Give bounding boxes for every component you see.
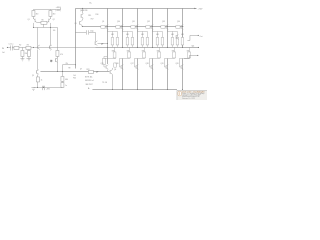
node arrow mark — [96, 71, 98, 73]
wire column C6 lower — [181, 58, 183, 89]
svg-text:Q1: Q1 — [27, 19, 29, 21]
resistor R22 emitter — [171, 37, 174, 45]
transistor Q5 — [36, 70, 38, 75]
wire column C5 upper — [166, 8, 168, 47]
wire Q14 emitter — [181, 29, 183, 47]
svg-text:DEVICES x4: DEVICES x4 — [85, 80, 94, 82]
transistor Q11 — [136, 25, 138, 30]
wire diff top — [33, 8, 60, 10]
svg-text:Q7: Q7 — [80, 69, 82, 71]
svg-text:0R5: 0R5 — [126, 34, 129, 36]
wire Q5 emitter — [36, 74, 38, 87]
resistor R6 emitter link — [41, 21, 47, 24]
svg-text:NOTE: ALL: NOTE: ALL — [85, 75, 93, 78]
ground input 1 — [20, 59, 24, 61]
transistor Q18 — [149, 58, 153, 69]
resistor R8 mirror — [26, 46, 31, 49]
svg-text:Q5: Q5 — [74, 23, 76, 25]
resistor R9 base — [101, 26, 105, 29]
wire input line — [7, 46, 95, 48]
wire column C1 lower — [106, 47, 108, 64]
svg-text:Q12: Q12 — [147, 21, 150, 23]
resistor R30 — [173, 52, 176, 58]
resistor R33 — [36, 77, 39, 82]
capacitor C4 bypass — [43, 86, 45, 90]
wire Q10 emitter ladder — [122, 29, 132, 47]
wire R29 stubs — [149, 47, 159, 58]
svg-text:Q4 BD139: Q4 BD139 — [80, 10, 88, 12]
wire base bus upper — [82, 25, 183, 27]
transistor Q20 — [179, 58, 183, 69]
transistor Q22 — [176, 35, 178, 40]
wire R7 bottom — [56, 56, 58, 71]
svg-text:R2: R2 — [19, 44, 21, 46]
resistor R26 — [102, 58, 105, 64]
resistor R18 base — [146, 26, 150, 29]
svg-text:Q13: Q13 — [162, 21, 165, 23]
resistor R28 — [143, 52, 146, 58]
transistor Q16 — [119, 58, 123, 69]
svg-text:R23: R23 — [86, 69, 89, 71]
ground input 2 — [26, 59, 31, 61]
junction dots — [33, 8, 183, 90]
node arrow mark 2 — [101, 43, 103, 45]
transistor Q12 — [151, 25, 153, 30]
svg-text:B-: B- — [88, 88, 90, 90]
wire out stub lower — [184, 55, 197, 58]
wire Q11 emitter ladder — [137, 29, 147, 47]
svg-text:Q6: Q6 — [50, 60, 52, 62]
svg-text:3k3: 3k3 — [36, 14, 39, 16]
wire column C6 upper — [181, 8, 183, 47]
wire column C2 lower — [121, 58, 123, 89]
svg-text:-35V: -35V — [46, 88, 50, 90]
resistor R19 emitter — [156, 37, 159, 45]
wire R31 stubs — [179, 47, 189, 58]
resistor R3 shunt — [27, 50, 30, 56]
capacitor C3 feedback — [61, 82, 64, 87]
resistor R11 emitter — [116, 37, 119, 45]
resistor R29 — [158, 52, 161, 58]
resistor R10 emitter — [111, 37, 114, 45]
wire column C5 lower — [166, 58, 168, 89]
svg-text:Q15: Q15 — [100, 63, 103, 65]
transistor Q3 mirror — [37, 45, 39, 50]
svg-text:0R5: 0R5 — [112, 50, 115, 52]
svg-text:Q20: Q20 — [175, 63, 178, 65]
wire tail — [33, 23, 57, 51]
wire R2 — [21, 47, 23, 58]
node +70V flag — [194, 8, 197, 9]
transistor Q19 — [164, 58, 168, 69]
svg-text:Q2: Q2 — [52, 19, 54, 21]
wire column C2 upper — [121, 8, 123, 47]
wire Q8 top stub — [111, 68, 113, 70]
svg-text:Q17: Q17 — [130, 63, 133, 65]
resistor R5 — [49, 10, 52, 16]
svg-text:Q11: Q11 — [132, 21, 135, 23]
capacitor C1 — [11, 45, 13, 50]
wire R30 stubs — [164, 47, 174, 58]
resistor R4 — [32, 10, 35, 16]
node speaker terminal — [198, 47, 199, 48]
node out terminal — [198, 35, 199, 36]
transistor Q7 bias — [80, 21, 82, 26]
wire column C3 lower — [136, 58, 138, 89]
svg-text:0R5: 0R5 — [157, 50, 160, 52]
transistor Q13 — [166, 25, 168, 30]
wire bottom rail — [92, 88, 177, 90]
svg-text:R10: R10 — [73, 78, 76, 80]
resistor R1 series — [14, 46, 19, 49]
resistor R32 on driver bus — [88, 70, 93, 73]
transistor Q21 — [95, 41, 97, 46]
svg-text:Q5: Q5 — [32, 75, 34, 77]
title block — [177, 90, 207, 100]
wire R26b stubs — [104, 47, 116, 58]
svg-text:0R5: 0R5 — [171, 34, 174, 36]
svg-text:1k: 1k — [41, 80, 43, 82]
labels — [2, 3, 203, 91]
resistor R2 shunt — [21, 50, 24, 56]
svg-text:+70V: +70V — [197, 9, 203, 11]
wire fb bottom — [61, 81, 63, 87]
resistor R20 emitter — [161, 37, 164, 45]
transistor Q14 — [181, 25, 183, 30]
node lower terminal — [197, 55, 198, 56]
wire column C3 upper — [136, 8, 138, 47]
svg-text:B+: B+ — [89, 3, 92, 5]
wire Q21 to column — [97, 42, 107, 44]
svg-text:Out: Out — [200, 35, 203, 38]
input stage — [7, 7, 96, 90]
resistor R13 emitter — [126, 37, 129, 45]
svg-text:SEE TEXT: SEE TEXT — [85, 84, 92, 86]
wire driver bus — [40, 70, 109, 72]
wire Q8 collector to rail — [111, 74, 113, 89]
svg-text:0R5: 0R5 — [156, 34, 159, 36]
svg-text:0R5: 0R5 — [111, 34, 114, 36]
resistor R7 tail — [56, 50, 59, 56]
svg-text:0R5: 0R5 — [142, 50, 145, 52]
svg-text:100: 100 — [53, 30, 56, 32]
wire out stub upper — [187, 35, 197, 40]
svg-text:Q14: Q14 — [177, 21, 180, 23]
right output stubs — [176, 35, 199, 59]
svg-text:Spk: Spk — [191, 46, 194, 48]
output devices row 1 (NPN on +rail) — [101, 25, 184, 48]
ground bottom left — [31, 87, 35, 90]
transistor Q17 — [134, 58, 138, 69]
transistor Q9 — [106, 25, 108, 30]
wire left feed vertical — [74, 8, 76, 68]
wire output bus — [95, 46, 198, 48]
wire Q9 emitter ladder — [107, 29, 117, 47]
VAS upper cluster — [75, 8, 107, 45]
title block emblem — [178, 91, 181, 96]
wire R26 stubs — [104, 56, 108, 66]
wire top rail — [75, 7, 196, 9]
capacitor C5 miller — [75, 30, 95, 34]
diode D3 — [114, 63, 117, 67]
svg-text:0R5: 0R5 — [141, 34, 144, 36]
svg-text:Q16: Q16 — [115, 63, 118, 65]
wire Q12 emitter ladder — [152, 29, 162, 47]
wire bias chain — [81, 8, 84, 26]
wire Q13 emitter ladder — [167, 29, 177, 47]
wire feedback L — [62, 65, 75, 77]
transistor Q2 — [47, 18, 51, 22]
svg-text:(+40V): (+40V) — [55, 10, 61, 12]
svg-text:22k: 22k — [65, 63, 68, 65]
transistor Q6 current source — [55, 58, 57, 63]
wire R28 stubs — [134, 47, 144, 58]
resistor R17 emitter — [146, 37, 149, 45]
wire R4 leads — [32, 9, 34, 18]
svg-text:1u0: 1u0 — [2, 52, 5, 54]
resistor R25 emitter — [181, 37, 184, 45]
transistor Q15 — [106, 65, 108, 70]
svg-text:680: 680 — [65, 79, 68, 81]
resistor R14 emitter — [131, 37, 134, 45]
svg-text:R15: R15 — [88, 15, 91, 17]
resistor R23 emitter — [176, 37, 179, 45]
resistor R26b — [113, 52, 116, 58]
resistor R27 — [128, 52, 131, 58]
svg-text:Q18: Q18 — [145, 63, 148, 65]
wire miller drop — [94, 32, 96, 41]
wire column C4 upper — [151, 8, 153, 47]
wire R27 stubs — [119, 47, 129, 58]
svg-text:470: 470 — [60, 54, 63, 56]
resistor R15 base — [131, 26, 135, 29]
output devices row 2 (PNP on -rail) — [102, 47, 190, 71]
wire R5 leads — [49, 9, 51, 18]
svg-text:Q19: Q19 — [160, 63, 163, 65]
wire R3 — [28, 47, 30, 58]
svg-text:R9: R9 — [68, 67, 70, 69]
resistor R24 base — [176, 26, 180, 29]
wire column C4 lower — [151, 58, 153, 89]
svg-text:0R5: 0R5 — [181, 34, 184, 36]
svg-text:0R5: 0R5 — [127, 50, 130, 52]
svg-text:R3: R3 — [27, 44, 29, 46]
wire emitter link — [37, 22, 47, 24]
svg-text:C1 1u: C1 1u — [8, 44, 13, 46]
svg-text:IN: IN — [2, 48, 5, 50]
svg-text:1u: 1u — [65, 85, 67, 87]
resistor R16 emitter — [141, 37, 144, 45]
resistor R12 base — [116, 26, 120, 29]
wire bottom left line — [33, 86, 62, 88]
svg-text:TO -VE: TO -VE — [102, 82, 107, 84]
svg-text:R6: R6 — [41, 20, 43, 22]
svg-text:100p: 100p — [90, 31, 94, 33]
svg-text:Q10: Q10 — [117, 21, 120, 23]
transistor Q8 driver — [110, 70, 112, 75]
svg-text:+35V: +35V — [55, 7, 61, 9]
transistor Q10 — [121, 25, 123, 30]
svg-text:Revision 1.0 - 1999: Revision 1.0 - 1999 — [182, 98, 195, 100]
node input terminal — [7, 47, 8, 48]
title block frame — [177, 90, 207, 100]
node +35V tick — [59, 7, 61, 9]
transistor Q6 bias — [81, 14, 83, 19]
svg-text:22k: 22k — [25, 53, 28, 55]
svg-text:3k3: 3k3 — [53, 14, 56, 16]
svg-text:R16: R16 — [95, 14, 98, 16]
svg-text:Q9: Q9 — [102, 21, 104, 23]
resistor R31 — [188, 52, 191, 58]
svg-text:0R5: 0R5 — [187, 50, 190, 52]
transistor Q4 mirror — [49, 45, 51, 50]
svg-text:Q8: Q8 — [114, 69, 116, 71]
transistor Q1 — [33, 18, 37, 22]
wire mirror drop — [37, 50, 50, 70]
resistor R21 base — [161, 26, 165, 29]
svg-text:0R5: 0R5 — [172, 50, 175, 52]
resistor R34 feedback — [61, 76, 64, 81]
wire driver row — [106, 69, 108, 71]
svg-text:R17: R17 — [91, 19, 94, 21]
driver / VAS bottom chain — [40, 68, 112, 90]
svg-text:1k0: 1k0 — [73, 75, 76, 77]
wire column C1 upper — [106, 8, 108, 47]
